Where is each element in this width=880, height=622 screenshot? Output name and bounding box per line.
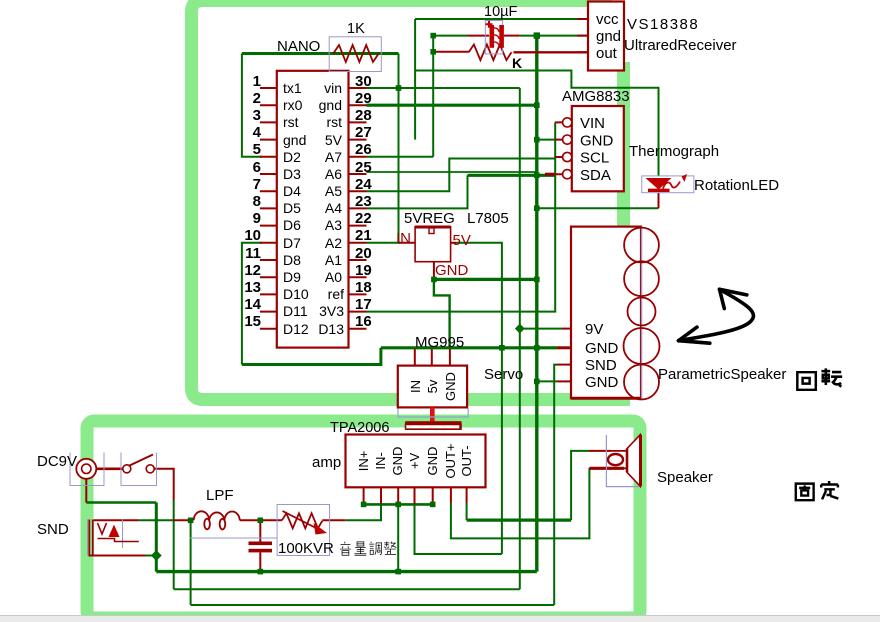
junction signal / SND drop [188, 518, 194, 524]
svg-text:ref: ref [328, 286, 344, 302]
svg-text:RotationLED: RotationLED [694, 177, 779, 194]
highlight border bottom (green marker box around fixed section) [87, 421, 640, 618]
junction GND / AMG GND [534, 137, 540, 143]
NANO pin numbers left [244, 73, 261, 330]
svg-text:20: 20 [355, 245, 372, 262]
wire SND jack tip lead [94, 519, 139, 521]
svg-text:VS18388: VS18388 [627, 16, 699, 33]
wire DC9V jack to switch [96, 467, 122, 470]
speaker SP1 [606, 435, 642, 487]
wire servo GND row thick [381, 346, 557, 349]
wire SND jack sleeve lead (red part) [89, 555, 146, 557]
junction servo wire / 5V vertical [499, 345, 505, 351]
svg-text:GND: GND [585, 340, 619, 357]
wire ParametricSpeaker 9V stub [562, 328, 571, 330]
wire MG995 IN stub [414, 349, 416, 366]
servo horn [406, 421, 462, 424]
wire 5VREG IN stub [398, 242, 415, 244]
svg-text:7: 7 [253, 176, 261, 193]
junction GND / LED return [534, 205, 540, 211]
svg-text:D4: D4 [283, 183, 301, 199]
wire ParametricSpeaker GND2 pin [537, 380, 557, 382]
IC U4 5VREG L7805 [415, 227, 451, 262]
svg-text:D6: D6 [283, 217, 301, 233]
svg-text:19: 19 [355, 262, 372, 279]
junction vin/1K node [396, 85, 402, 91]
wire MG995 GND stub [449, 349, 451, 366]
wire OUT- route to speaker [466, 503, 468, 520]
svg-text:27: 27 [355, 124, 372, 141]
svg-text:9: 9 [253, 210, 261, 227]
wire cap bottom lead [259, 553, 261, 572]
junction GND / pin29 [534, 102, 540, 108]
svg-text:rst: rst [283, 114, 299, 130]
IC U2 VS18388 UltraredReceiver [588, 2, 624, 71]
wire cap top lead [259, 520, 261, 541]
svg-text:8: 8 [253, 193, 261, 210]
speaker cones circles [624, 228, 659, 263]
svg-text:Thermograph: Thermograph [629, 143, 719, 160]
svg-text:rst: rst [326, 114, 342, 130]
wire VS gnd row right part [520, 35, 583, 37]
diamond junction 9V / ParametricSpeaker [515, 324, 525, 334]
wire AMG pin stubs [555, 122, 563, 174]
svg-text:2: 2 [253, 90, 261, 107]
svg-text:A5: A5 [325, 183, 342, 199]
window bottom gray strip [0, 615, 880, 622]
svg-text:D8: D8 [283, 252, 301, 268]
junction GND vertical top [534, 32, 540, 38]
svg-text:GND: GND [435, 262, 469, 279]
junction amp IN+ [361, 502, 367, 508]
wire 9V vertical main [519, 88, 521, 589]
wire signal red segment before LPF junction [173, 519, 190, 521]
IC U5 MG995 servo [398, 366, 468, 430]
wire NANO pin26 A7 row [367, 156, 434, 158]
svg-text:10: 10 [244, 227, 261, 244]
svg-text:IN: IN [408, 380, 423, 393]
svg-text:D11: D11 [283, 303, 308, 319]
svg-text:L7805: L7805 [467, 210, 509, 227]
capacitor C2 [249, 542, 273, 553]
wire amp GND pin drop [397, 504, 399, 571]
svg-text:K: K [512, 55, 522, 71]
svg-text:GND: GND [585, 374, 619, 391]
svg-text:10µF: 10µF [484, 4, 517, 20]
svg-text:100KVR: 100KVR [278, 540, 334, 557]
wire ParametricSpeaker SND stub [557, 364, 571, 366]
LED D1 RotationLED [642, 174, 694, 193]
svg-text:AMG8833: AMG8833 [562, 88, 630, 105]
junction GND / 5VREG GND wire [534, 277, 540, 283]
wire 5VREG GND stub [433, 262, 435, 280]
wire NANO pin29 gnd row [367, 104, 537, 107]
junction amp GND2 pin [430, 502, 436, 508]
junction amp GND pin [395, 502, 401, 508]
svg-text:A1: A1 [325, 252, 342, 268]
wire vcc red stub [583, 18, 588, 20]
svg-text:A0: A0 [325, 269, 342, 285]
wire sleeve drop [155, 503, 158, 572]
highlight border top (green marker box around rotating section) [192, 1, 631, 400]
connector J1 ParametricSpeaker [571, 227, 660, 400]
svg-text:D5: D5 [283, 200, 301, 216]
wire amp +V riser [415, 504, 502, 554]
resistor R1 1K [329, 37, 381, 72]
wire SND jack sleeve to GND (green part) [146, 555, 157, 557]
svg-text:D12: D12 [283, 321, 309, 337]
svg-text:1: 1 [253, 73, 261, 90]
wire VS pin stubs [577, 19, 588, 52]
svg-text:D3: D3 [283, 166, 301, 182]
wire K resistor left lead [433, 51, 469, 53]
selection line [398, 409, 468, 418]
svg-text:out: out [596, 45, 618, 62]
svg-text:IN: IN [396, 230, 411, 247]
wire 5VREG 5V output [455, 243, 502, 554]
wire ParametricSpeaker GND2 stub [557, 380, 571, 382]
svg-text:gnd: gnd [319, 97, 342, 113]
wire 5VREG GND jog to MG995 [434, 279, 450, 349]
junction VS gnd wire / K vertical [430, 33, 436, 39]
svg-text:Speaker: Speaker [657, 469, 713, 486]
svg-text:NANO: NANO [277, 38, 320, 55]
switch S1 [121, 453, 157, 486]
wire SDA stub merge [545, 173, 555, 176]
wire 1K right drop to vin [398, 54, 400, 243]
wire pot wiper junction drop [190, 520, 192, 605]
svg-text:A6: A6 [325, 166, 342, 182]
svg-text:gnd: gnd [596, 28, 621, 45]
wire LED cathode lead [658, 190, 660, 209]
svg-text:D10: D10 [283, 286, 309, 302]
NANO pin names left column [283, 80, 309, 337]
svg-text:A4: A4 [325, 200, 342, 216]
svg-text:24: 24 [355, 176, 372, 193]
wire gnd red stub [583, 35, 588, 37]
wire NANO pin24 A5 to SCL [367, 159, 555, 192]
svg-text:5V: 5V [453, 232, 471, 249]
wire OUT+ route to speaker [451, 468, 590, 539]
svg-text:4: 4 [253, 124, 262, 141]
svg-text:SDA: SDA [580, 167, 611, 184]
svg-text:28: 28 [355, 107, 372, 124]
wire GND bottom horizontal thick [156, 570, 537, 573]
wire vcc horizontal [415, 18, 583, 20]
wire NANO D7 left route down [242, 243, 262, 365]
svg-text:IN-: IN- [373, 452, 388, 469]
connector DC9V jack [70, 453, 104, 486]
wire ParametricSpeaker GND1 stub thick [557, 346, 571, 349]
wire NANO pin30 vin row [367, 87, 520, 89]
IC U6 TPA2006 amp [346, 435, 486, 488]
wire DC9V sleeve stub [85, 478, 87, 502]
svg-text:3V3: 3V3 [319, 303, 344, 319]
svg-text:SCL: SCL [580, 150, 609, 167]
svg-text:11: 11 [245, 245, 261, 262]
svg-text:13: 13 [244, 279, 261, 296]
wire GND vertical main thick [535, 36, 538, 572]
junction signal / filter cap [258, 518, 264, 524]
NANO right pin stubs 30-16 [349, 88, 367, 329]
IC U3 AMG8833 [563, 106, 624, 191]
inductor L1 LPF [190, 511, 277, 538]
svg-text:23: 23 [355, 193, 372, 210]
svg-text:A7: A7 [325, 149, 342, 165]
NANO left pin stubs 1-15 [260, 88, 277, 329]
wire left route bottom thick [242, 348, 381, 365]
wire 10uF leads [468, 35, 490, 37]
wire 1K net top (NANO gnd to resistor) [242, 52, 399, 55]
svg-text:26: 26 [355, 141, 372, 158]
svg-text:18: 18 [355, 279, 372, 296]
svg-text:A3: A3 [325, 217, 342, 233]
junction GND / ParametricSpeaker GND2 [534, 379, 540, 385]
wire switch to 9V bottom [173, 500, 175, 589]
svg-text:+V: +V [407, 453, 422, 470]
junction servo wire / GND vertical [534, 345, 540, 351]
wire SND bottom horizontal [191, 604, 555, 606]
svg-text:OUT+: OUT+ [443, 443, 458, 478]
svg-text:MG995: MG995 [415, 334, 464, 351]
potentiometer VR1 100KVR [277, 505, 329, 556]
svg-text:TPA2006: TPA2006 [330, 420, 389, 436]
svg-text:Servo: Servo [484, 366, 523, 383]
svg-text:vin: vin [324, 80, 342, 96]
wire amp input bridge [364, 503, 433, 506]
NANO pin numbers right [355, 73, 372, 330]
svg-text:12: 12 [244, 262, 261, 279]
svg-text:VIN: VIN [580, 115, 605, 132]
wire AMG GND stub to GND vertical [537, 139, 555, 141]
svg-text:amp: amp [312, 454, 341, 471]
svg-text:6: 6 [253, 159, 261, 176]
svg-text:IN+: IN+ [356, 451, 371, 472]
svg-text:gnd: gnd [283, 132, 306, 148]
wire signal LPF to pot [345, 504, 381, 520]
svg-text:15: 15 [244, 313, 261, 330]
wire VS gnd row left part [433, 35, 467, 37]
svg-text:A2: A2 [325, 235, 342, 251]
servo shaft [430, 407, 435, 421]
svg-text:3: 3 [253, 107, 261, 124]
svg-text:9V: 9V [585, 321, 603, 338]
label kaiten (rotation) kanji drawn as paths [797, 368, 842, 389]
svg-text:21: 21 [355, 227, 372, 244]
label volume adjust (on-ryou-chou-sei) kanji drawn as paths [340, 542, 396, 556]
IC U1 NANO box [260, 71, 367, 348]
wire speaker top terminal [589, 450, 611, 452]
svg-text:GND: GND [390, 447, 405, 476]
svg-text:5V: 5V [325, 132, 343, 148]
wire NANO pin21 to 5VREG IN [367, 242, 401, 244]
wire left drop to NANO pin5 [242, 54, 262, 157]
svg-text:ParametricSpeaker: ParametricSpeaker [658, 366, 786, 383]
svg-text:UltraredReceiver: UltraredReceiver [624, 37, 737, 54]
diamond junction SND sleeve GND [151, 550, 162, 561]
svg-text:LPF: LPF [206, 487, 234, 504]
svg-text:25: 25 [355, 159, 372, 176]
capacitor C1 10uF electrolytic [485, 21, 504, 54]
wire 5VREG GND row thick [434, 278, 537, 281]
wire speaker bottom terminal thick [589, 467, 624, 470]
svg-text:D13: D13 [318, 321, 344, 337]
wire amp pin stubs [364, 487, 467, 504]
capacitor above amp [405, 422, 461, 425]
svg-text:GND: GND [580, 133, 614, 150]
svg-text:DC9V: DC9V [37, 453, 77, 470]
junction GND line / amp GND [395, 569, 401, 575]
wire MG995 5V stub [431, 349, 433, 366]
junction GND / pin23 wire [534, 173, 540, 179]
svg-text:16: 16 [355, 313, 372, 330]
svg-text:D2: D2 [283, 149, 301, 165]
junction K resistor left node [430, 49, 436, 55]
wire SND riser to ParametricSpeaker [554, 365, 557, 605]
wire 5VREG 5V stub [451, 242, 456, 244]
wire 9V bottom horizontal [174, 588, 520, 590]
svg-text:OUT-: OUT- [459, 445, 474, 476]
svg-text:D7: D7 [283, 235, 301, 251]
svg-text:22: 22 [355, 210, 372, 227]
NANO pin names right column [318, 80, 344, 337]
wire pot right lead [322, 519, 345, 521]
junction 5VREG GND stub [431, 277, 437, 283]
wire switch output down [154, 469, 174, 500]
annotation arrow hand-drawn [679, 289, 754, 343]
wire NANO pin23 A4 riser [367, 175, 468, 208]
svg-text:17: 17 [355, 296, 372, 313]
svg-text:5VREG: 5VREG [404, 210, 455, 227]
junction GND line / cap [258, 569, 264, 575]
wire NANO pin25 A6 to SDA thin [367, 171, 537, 173]
resistor R2 K [469, 45, 512, 61]
svg-text:GND: GND [425, 447, 440, 476]
wire LPF right lead [240, 519, 282, 521]
wire RotationLED feed [415, 71, 658, 177]
wire K resistor right lead to VS out [514, 51, 589, 53]
svg-text:SND: SND [585, 357, 617, 374]
svg-text:vcc: vcc [596, 11, 619, 28]
wire DC9V sleeve return [86, 501, 156, 504]
label kotei (fixed) kanji drawn as paths [796, 481, 839, 500]
wire RotationLED return to GND [537, 207, 659, 209]
wire K vertical (VS gnd to pin26) [432, 36, 434, 157]
wire vcc vertical from VS18388 to NANO 5V pin27 [414, 19, 416, 140]
wire pin23 thick row to SDA [468, 174, 555, 177]
svg-text:1K: 1K [347, 21, 365, 37]
svg-text:29: 29 [355, 90, 372, 107]
wire NANO pin17 3V3 to AMG VIN [367, 122, 556, 311]
svg-text:D9: D9 [283, 269, 301, 285]
svg-text:5: 5 [253, 141, 261, 158]
svg-text:GND: GND [443, 372, 458, 401]
svg-text:rx0: rx0 [283, 97, 303, 113]
svg-text:SND: SND [37, 521, 69, 538]
svg-text:5v: 5v [425, 379, 440, 393]
wire ParametricSpeaker 9V pin [520, 328, 562, 330]
wire signal SND to LPF [138, 519, 173, 521]
svg-text:14: 14 [244, 296, 261, 313]
connector J2 SND audio jack [88, 519, 139, 556]
svg-text:30: 30 [355, 73, 372, 90]
svg-text:tx1: tx1 [283, 80, 302, 96]
